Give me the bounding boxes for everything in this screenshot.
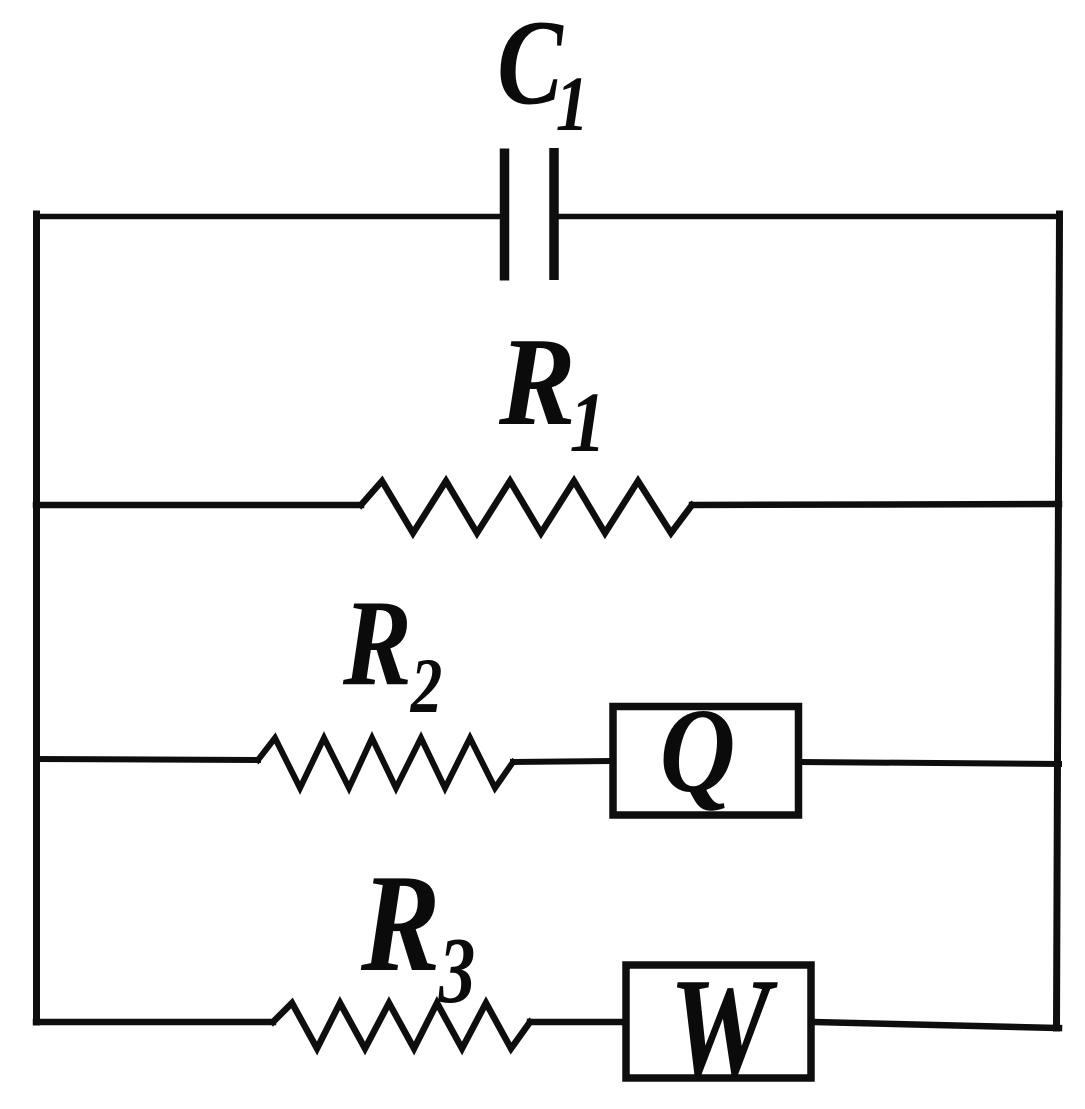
svg-text:1: 1: [570, 375, 606, 470]
svg-text:3: 3: [438, 919, 475, 1023]
wire: R1 to right rail: [692, 504, 1059, 505]
label W: [669, 949, 778, 1106]
label Q: [660, 683, 736, 818]
wire: left rail: [33, 214, 40, 1022]
Warburg box W: [626, 965, 811, 1078]
wire: R3 to W box: [530, 1019, 623, 1026]
wire: top branch left segment: [36, 214, 500, 220]
wire: left rail to R2: [36, 759, 258, 760]
label R2: [342, 575, 412, 712]
wire: right rail: [1057, 214, 1060, 1028]
CPE box Q: [613, 707, 799, 816]
resistor R2 zigzag: [258, 738, 513, 788]
svg-text:W: W: [669, 949, 778, 1106]
svg-text:R: R: [360, 846, 440, 1001]
resistor R3 zigzag: [273, 1003, 530, 1049]
svg-text:R: R: [342, 575, 412, 712]
svg-text:C: C: [497, 0, 564, 130]
label R3: [360, 846, 440, 1001]
wire: top branch right segment: [558, 214, 1059, 220]
wire: R2 to Q box: [513, 761, 610, 762]
svg-text:Q: Q: [660, 683, 736, 818]
resistor R1 zigzag: [361, 481, 692, 533]
wire: Q box to right rail: [801, 762, 1059, 764]
wire: left rail to R1: [36, 502, 361, 509]
svg-text:R: R: [498, 312, 576, 452]
capacitor C1 plates: [500, 149, 510, 281]
svg-text:1: 1: [556, 59, 589, 147]
svg-text:2: 2: [410, 643, 443, 730]
wire: left rail to R3: [36, 1019, 273, 1026]
label R1: [498, 312, 576, 452]
label C1: [497, 0, 564, 130]
wire: W box to right rail: [813, 1022, 1059, 1028]
